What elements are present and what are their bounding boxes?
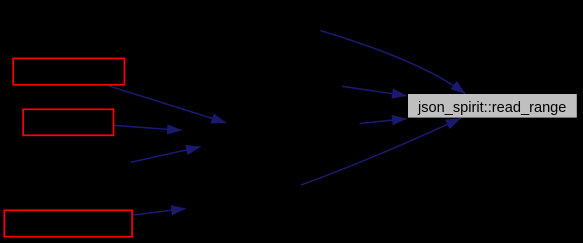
edge: top curve into read_range xyxy=(321,31,466,94)
red node 1 xyxy=(13,58,124,84)
edge: mid lower horizontal into read_range xyxy=(360,119,407,124)
edge: from red node 3 xyxy=(132,209,185,216)
red node 2 xyxy=(23,109,113,135)
edge: from red node 1 xyxy=(107,85,226,122)
edge: mid upper horizontal into read_range xyxy=(342,86,407,95)
node: json_spirit::read_range xyxy=(408,94,577,118)
edge: long diagonal from bottom into read_range xyxy=(301,118,461,185)
edge: from red node 2 xyxy=(114,125,182,130)
edge: middle short diagonal xyxy=(131,147,201,163)
red node 3 xyxy=(4,210,132,236)
svg-text:json_spirit::read_range: json_spirit::read_range xyxy=(417,100,566,116)
